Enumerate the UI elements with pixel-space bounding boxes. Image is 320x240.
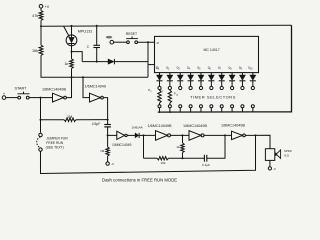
svg-text:+V: +V [45,5,50,9]
svg-text:-V: -V [273,167,276,171]
svg-text:Dash connections in FREE RUN M: Dash connections in FREE RUN MODE [102,178,177,183]
svg-text:4.5µF: 4.5µF [92,122,101,126]
svg-text:47k: 47k [32,14,38,18]
svg-text:MPU131: MPU131 [78,30,93,34]
svg-text:-V: -V [111,162,114,166]
svg-text:1/6MC14049B: 1/6MC14049B [183,124,207,128]
svg-text:1/6MC14049B: 1/6MC14049B [42,87,66,91]
svg-text:1M: 1M [67,115,72,119]
svg-text:JUMPER FOR: JUMPER FOR [46,136,68,140]
svg-text:TIMER SELECTORS: TIMER SELECTORS [190,95,236,100]
svg-text:0.1µF: 0.1µF [202,163,210,167]
svg-text:(SEE TEXT): (SEE TEXT) [46,146,64,150]
svg-text:FREE RUN: FREE RUN [46,141,63,145]
svg-text:1M: 1M [100,149,105,153]
svg-text:8 Ω: 8 Ω [284,153,288,157]
svg-text:START: START [15,87,28,91]
svg-text:MC 14017: MC 14017 [204,48,220,52]
svg-text:15k: 15k [32,49,38,53]
svg-text:1k: 1k [176,145,180,149]
svg-text:1/6MC14049B: 1/6MC14049B [221,124,245,128]
svg-text:1/6MC14049B: 1/6MC14049B [148,124,172,128]
svg-text:RESET: RESET [126,32,137,36]
svg-text:1k: 1k [64,62,68,66]
svg-text:1/6MC14049: 1/6MC14049 [85,85,106,89]
svg-text:1N914A: 1N914A [132,126,144,130]
svg-text:1/6MC14049: 1/6MC14049 [112,143,132,147]
svg-text:15k: 15k [161,161,166,165]
